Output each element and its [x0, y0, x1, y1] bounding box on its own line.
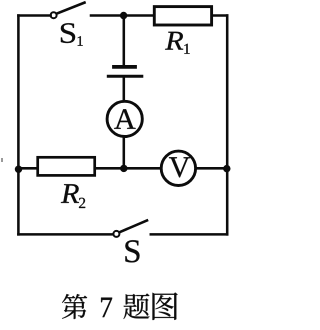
wire battery branch upper [123, 16, 126, 65]
label R1: letter R [165, 32, 183, 50]
resistor R2 [38, 157, 95, 175]
ammeter body [107, 101, 142, 136]
switch S1 blade [57, 3, 85, 14]
wire voltmeter to right [196, 167, 228, 170]
battery cell plate short [114, 65, 135, 69]
label S1: subscript 1 [78, 36, 83, 46]
label R2: subscript 2 [79, 198, 85, 208]
caption char 图 [153, 292, 178, 320]
wire bottom-right segment [151, 233, 227, 236]
wire left vertical [17, 16, 20, 235]
wire top-right segment [213, 14, 227, 17]
wire top-left segment [18, 14, 50, 17]
voltmeter letter V [169, 157, 190, 177]
switch S1 contact circle [51, 12, 57, 18]
wire top-middle segment [91, 14, 154, 17]
node top junction [120, 12, 127, 19]
label R2: letter R [61, 184, 79, 203]
switch S contact circle [113, 231, 119, 237]
wire middle-left segment [18, 167, 37, 170]
switch S blade [120, 220, 147, 232]
voltmeter body [161, 151, 195, 185]
node middle junction [120, 165, 127, 172]
caption char 第 [62, 294, 87, 319]
node right junction [223, 165, 230, 172]
node left junction [15, 166, 22, 173]
wire R2 to voltmeter [95, 167, 162, 170]
caption char 题 [123, 293, 149, 319]
wire battery to ammeter [123, 78, 126, 102]
scan speck [1, 158, 3, 162]
label R1: subscript 1 [184, 44, 189, 54]
wire ammeter to middle junction [123, 137, 126, 169]
wire bottom-left segment [18, 233, 113, 236]
wire right vertical [226, 16, 229, 235]
resistor R1 [154, 7, 211, 25]
ammeter letter A [114, 109, 135, 128]
label S: letter S [125, 240, 139, 262]
battery cell plate long [108, 75, 142, 78]
caption digit 7 [101, 298, 112, 317]
label S1: letter S [61, 23, 75, 43]
